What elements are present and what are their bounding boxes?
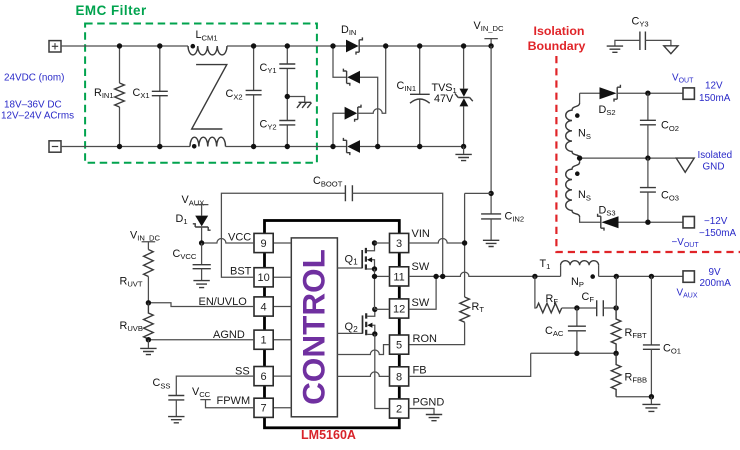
svg-text:FB: FB — [413, 364, 427, 376]
svg-text:VIN: VIN — [412, 228, 430, 240]
wire: VIN_DC rail down right side — [490, 46, 492, 214]
svg-text:9V: 9V — [709, 267, 721, 278]
svg-text:LM5160A: LM5160A — [301, 428, 356, 442]
ground at AGND / divider bottom — [140, 340, 156, 355]
ground at PGND pin2 — [409, 409, 443, 421]
CONTROL block — [291, 238, 337, 417]
svg-text:FPWM: FPWM — [217, 395, 251, 407]
pin 5 RON — [390, 333, 438, 354]
EMC filter dashed box — [85, 24, 317, 163]
Isolation Boundary title — [528, 24, 586, 53]
ground at bottom rail end — [455, 147, 471, 161]
svg-text:GND: GND — [703, 161, 725, 172]
svg-text:18V–36V DC: 18V–36V DC — [4, 100, 62, 111]
terminal - input — [49, 141, 61, 152]
wire: FB pin 8 to feedback node — [409, 353, 531, 376]
diode DS3 — [598, 204, 683, 230]
svg-text:Isolated: Isolated — [698, 150, 733, 161]
capacitor CO1 — [643, 276, 681, 396]
terminal 9V VAUX output — [677, 267, 732, 300]
resistor RFBT — [611, 308, 647, 353]
wire: VIN pin3 to VIN_DC branch with hop over CBOOT drop — [409, 239, 465, 244]
svg-text:11: 11 — [393, 271, 404, 283]
terminal -VOUT -12V — [672, 216, 737, 249]
svg-text:7: 7 — [261, 403, 267, 415]
svg-text:9: 9 — [261, 238, 267, 250]
wire: FB node horizontal — [531, 352, 616, 354]
wire: pin12 outer up to SW row — [409, 276, 436, 309]
capacitor CSS — [153, 377, 185, 423]
svg-text:1: 1 — [261, 335, 267, 347]
capacitor CF — [577, 291, 616, 316]
capacitor CAC — [545, 308, 586, 353]
capacitor CBOOT — [313, 175, 443, 276]
capacitor CIN1 (polarized) — [397, 43, 430, 149]
wire: SS pin6 to CSS — [176, 376, 254, 395]
node VIN_DC tap (left divider) — [130, 229, 161, 249]
pin 8 FB — [390, 364, 427, 386]
capacitor CX2 — [226, 46, 262, 147]
wire: top rail through bridge to VIN_DC corner — [333, 45, 491, 47]
ground under CIN2 — [483, 240, 499, 246]
svg-text:12: 12 — [393, 303, 405, 315]
bridge diode row2 (points left) — [333, 46, 378, 147]
junction dots EMC bottom rail — [117, 144, 290, 149]
svg-text:2: 2 — [396, 403, 402, 415]
node SW junction dots at pin12 riser and CBOOT drop — [433, 274, 438, 279]
isolation boundary dashed line — [556, 56, 740, 252]
svg-text:PGND: PGND — [413, 396, 445, 408]
svg-text:Isolation: Isolation — [534, 24, 585, 38]
node: VIN branch junction on VIN_DC rail — [465, 191, 494, 196]
svg-text:5: 5 — [396, 340, 402, 352]
terminal VOUT 12V — [672, 72, 731, 104]
svg-text:VCC: VCC — [228, 232, 251, 244]
node UVLO divider junction dot — [146, 300, 151, 305]
blue input rating labels — [1, 73, 74, 122]
wire: divider junction to EN/UVLO pin 4 — [148, 303, 254, 307]
chassis ground at CY junction — [287, 97, 311, 108]
capacitor CO3 — [640, 158, 679, 222]
wire: AGND pin1 to divider bottom — [148, 339, 254, 341]
svg-text:−150mA: −150mA — [699, 228, 736, 239]
svg-text:6: 6 — [261, 371, 267, 383]
capacitor CY3 — [615, 15, 671, 50]
node AGND junction dot — [146, 337, 151, 342]
pin 10 BST — [230, 266, 273, 287]
svg-text:RON: RON — [413, 333, 438, 345]
svg-text:12V: 12V — [705, 80, 723, 91]
capacitor CX1 — [133, 46, 168, 147]
wire: RFBT branch from output rail — [615, 276, 617, 308]
svg-text:SW: SW — [412, 261, 430, 273]
node -VOUT rail junction dot — [645, 220, 650, 225]
resistor RT — [409, 297, 484, 345]
node FB network junction dots — [574, 351, 579, 356]
transistor Q2 (low-side FET) — [337, 307, 377, 337]
resistor RUVT — [120, 250, 154, 303]
node VAUX output rail junction dots — [532, 274, 537, 279]
resistor RUVB — [120, 303, 154, 340]
pin 2 PGND — [390, 396, 445, 418]
pin 9 VCC — [228, 232, 273, 253]
op IC LM5160A body — [265, 221, 400, 443]
ground at CO1/RFBB — [642, 397, 660, 412]
pin 1 AGND — [213, 329, 273, 349]
ground Isolated GND triangle — [676, 150, 732, 173]
transformer T1 primary NP — [540, 258, 599, 289]
capacitor CIN2 — [481, 210, 524, 240]
wire: pin8 FB inner to CONTROL with hop — [337, 372, 389, 376]
pin 4 EN/UVLO — [199, 296, 274, 316]
svg-text:200mA: 200mA — [700, 278, 732, 289]
svg-text:CONTROL: CONTROL — [296, 249, 332, 405]
wire: pin12 inner to Q2 drain — [375, 308, 390, 310]
bridge diode row4 (points left, inline bottom rail) — [343, 138, 463, 155]
node VCC junction dot — [199, 240, 204, 245]
node VIN_DC top tap — [474, 20, 505, 49]
wire: Q2 source down to pin2 PGND — [375, 334, 390, 409]
transformer secondary NS (top) — [566, 93, 591, 158]
resistor RFBB — [611, 353, 647, 396]
svg-text:8: 8 — [396, 371, 402, 383]
resistor RIN1 — [94, 46, 124, 147]
wire: top input rail from + terminal to bridge — [61, 45, 333, 47]
resistor RF — [535, 276, 577, 312]
node VAUX tap (left) — [182, 194, 209, 215]
svg-text:EMC Filter: EMC Filter — [76, 3, 148, 18]
junction dots EMC top rail — [117, 43, 290, 48]
wire: VCC from D1 to pin 9 with hop over BST vertical — [202, 239, 254, 244]
wire: pin5 RON inner to CONTROL with hop — [337, 345, 389, 355]
capacitor CY1 — [260, 46, 296, 97]
pin 3 VIN — [390, 228, 430, 253]
wire: SW row from pin 11 to transformer — [409, 272, 561, 276]
svg-text:BST: BST — [230, 266, 252, 278]
ground (signal) at CY3 left — [607, 46, 623, 52]
node RF/CF junction dots — [574, 305, 579, 310]
node SW pin11 inner junction dot — [372, 274, 377, 279]
svg-text:10: 10 — [257, 272, 269, 284]
diode DS2 — [580, 85, 683, 117]
diode DIN bridge top (row1) — [341, 24, 362, 55]
pin 6 SS — [235, 365, 273, 385]
TVS1 bidirectional suppressor 47V — [432, 43, 473, 149]
wire: pin3 inner to Q1 drain — [375, 242, 390, 244]
bridge junction dots — [330, 43, 388, 149]
svg-text:Boundary: Boundary — [528, 39, 586, 53]
transformer secondary NS (bottom) — [566, 158, 601, 222]
node isolated GND rail junction dots — [577, 155, 582, 160]
transistor Q1 (high-side FET) — [337, 240, 377, 271]
node CO1/RFBB ground junction dot — [649, 394, 654, 399]
wire: bottom input rail from - terminal to bridge — [61, 146, 346, 148]
svg-text:3: 3 — [396, 238, 402, 250]
wire: BST to CBOOT — [221, 193, 345, 277]
svg-text:SW: SW — [412, 297, 430, 309]
wires: left pins to CONTROL — [273, 243, 291, 408]
svg-text:4: 4 — [261, 301, 267, 313]
wire: RFBB bottom to ground node — [616, 396, 651, 398]
wire: pin11 inner to SW vertical — [375, 275, 390, 277]
pin 11 SW — [390, 261, 430, 286]
pin 7 FPWM — [217, 395, 274, 418]
capacitor CVCC — [173, 243, 211, 288]
pin 12 SW — [390, 297, 430, 318]
svg-text:150mA: 150mA — [699, 93, 731, 104]
terminal + input — [49, 41, 61, 52]
svg-text:−12V: −12V — [704, 216, 728, 227]
common-mode choke LCM1 — [188, 29, 227, 148]
svg-text:47V: 47V — [434, 93, 454, 105]
ground (chassis triangle) at CY3 right — [664, 46, 678, 54]
svg-text:24VDC (nom): 24VDC (nom) — [4, 73, 64, 84]
wire: row3 cathode to DC+ with hop over DC- vertical — [358, 46, 386, 113]
node: CY mid junction — [285, 94, 290, 99]
node VIN branch dot — [462, 240, 467, 245]
node VCC tap for FPWM — [192, 386, 254, 408]
wire: VIN branch vertical with hop over SW row, down to RT — [464, 193, 466, 297]
bridge diode row3 (points right) — [333, 46, 386, 147]
wire: Q1 source / SW vertical between pins 11 and 12 — [374, 269, 376, 309]
wire: output rail from transformer to 9V terminal — [599, 275, 683, 277]
wire: isolated GND mid rail — [580, 157, 677, 159]
svg-text:12V–24V ACrms: 12V–24V ACrms — [1, 111, 74, 122]
capacitor CY2 — [260, 97, 296, 147]
capacitor CO2 — [640, 91, 679, 159]
diode D1 — [176, 213, 211, 243]
